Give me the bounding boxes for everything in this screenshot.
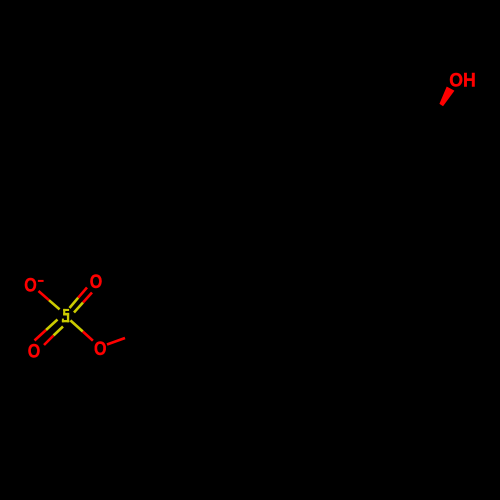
double bond S=Oa line2 yellow half: [74, 303, 83, 313]
bond O(-)-S red half: [39, 291, 50, 300]
double bond S=Ob line1 yellow half: [46, 320, 58, 331]
double bond S=Oa line1 red half: [78, 288, 87, 298]
bond O(-)-S yellow half: [49, 300, 60, 309]
svg-text:O: O: [94, 339, 107, 360]
double bond S=Oa line2 red half: [83, 293, 92, 303]
double bond S=Oa line1 yellow half: [70, 298, 79, 308]
bond S-Oc yellow half: [70, 320, 82, 331]
svg-text:O: O: [28, 342, 41, 363]
double bond S=Ob line1 red half: [35, 330, 47, 341]
svg-text:O: O: [90, 272, 103, 293]
svg-text:OH: OH: [449, 71, 476, 92]
sulfur S (blocky glyph drawn as rects): [62, 309, 69, 322]
svg-text:O: O: [24, 275, 37, 296]
bond S-Oc red half: [83, 332, 93, 341]
double bond S=Ob line2 yellow half: [54, 327, 64, 336]
double bond S=Ob line2 red half: [44, 336, 54, 346]
bond Oc-C red half: [107, 338, 125, 345]
wedge bond C17-OH: [440, 87, 454, 106]
minus sign of O-: [38, 280, 44, 282]
